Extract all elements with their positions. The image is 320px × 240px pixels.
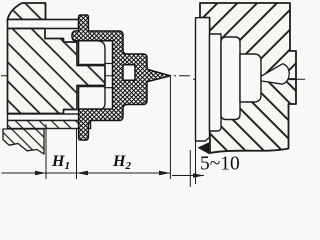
centerline left assembly bbox=[1, 75, 121, 77]
dark wedge at bottom-left of right block bbox=[198, 142, 210, 154]
white step block 3 bbox=[221, 37, 240, 120]
top plate (white) bbox=[8, 20, 79, 29]
white step block 2 bbox=[210, 34, 222, 131]
right block lower half (hatched /) bbox=[210, 79, 297, 153]
extension lines bbox=[45, 124, 47, 179]
sprue cone bbox=[261, 64, 289, 84]
arrows bbox=[35, 171, 46, 175]
white plate 1 of right assembly bbox=[196, 18, 210, 141]
centerline right assembly bbox=[193, 78, 306, 80]
white step block 4 bbox=[240, 54, 261, 102]
bottom plate 1 (white) bbox=[8, 114, 91, 121]
svg-text:5~10: 5~10 bbox=[200, 154, 240, 175]
dimension line H1 H2 bbox=[2, 172, 171, 174]
right block upper half (hatched \) bbox=[200, 3, 296, 79]
cross-hatched molding material (S-shaped channel) bbox=[72, 15, 171, 140]
bottom plate 2 (hatched) bbox=[8, 121, 91, 129]
left top clamp block bbox=[8, 3, 46, 20]
left main block (pot body) bbox=[8, 29, 106, 114]
broken-off wedge under plates bbox=[3, 129, 44, 154]
shelf lines bbox=[104, 63, 112, 65]
plunger lower (white insert, mirrored) bbox=[79, 87, 105, 111]
plunger upper (white insert) bbox=[79, 41, 105, 65]
dimension line 5~10 bbox=[172, 175, 204, 177]
